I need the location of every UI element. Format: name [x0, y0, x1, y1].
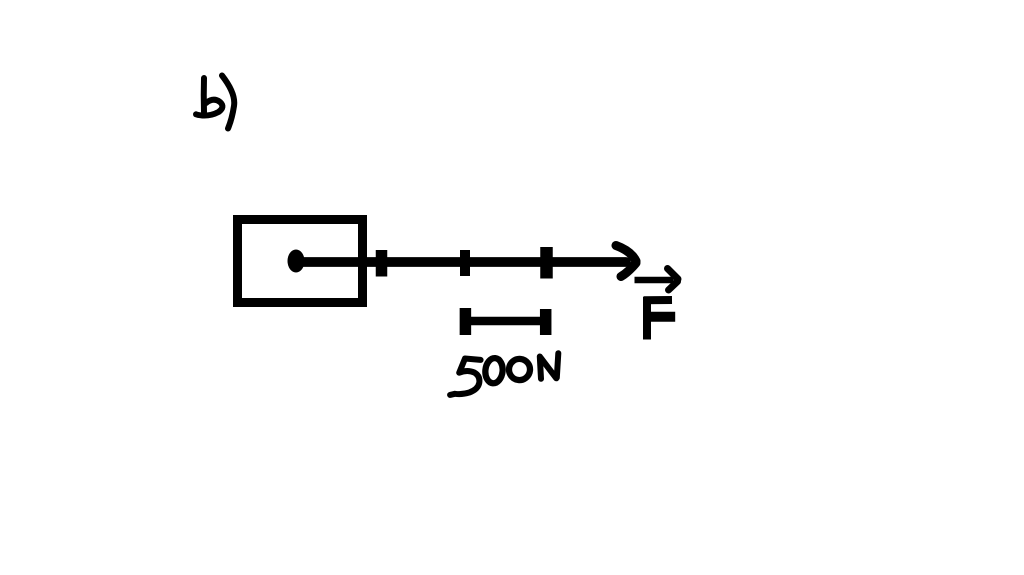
label 500N — [450, 353, 558, 395]
scale bar — [465, 308, 545, 335]
box (block) — [238, 220, 363, 303]
label F vector — [635, 269, 679, 340]
tick 1 on force line — [376, 250, 388, 277]
arrowhead of force line — [616, 246, 636, 277]
dot (point of application) — [288, 250, 305, 273]
wire force line shaft — [300, 257, 626, 267]
tick 3 on force line — [540, 247, 553, 279]
label b) part label — [196, 76, 234, 129]
tick 2 on force line — [460, 250, 470, 276]
